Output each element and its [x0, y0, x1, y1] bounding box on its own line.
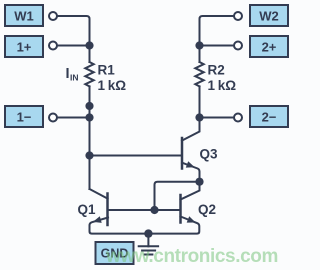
svg-text:IN: IN [70, 73, 79, 83]
ground symbol [147, 234, 149, 247]
Q1 emitter arrow [93, 216, 102, 223]
wire: Q1 collector from left rail [90, 189, 108, 199]
svg-text:Q2: Q2 [198, 202, 216, 217]
node: Q3 base tap junction [85, 151, 93, 159]
Q2 emitter arrow [187, 216, 196, 222]
node: ground junction [144, 229, 152, 237]
transistor Q1 [106, 194, 109, 226]
wire: W1 terminal to left rail [58, 16, 90, 46]
wire: Q2 emitter to bottom rail [148, 217, 199, 234]
svg-text:W1: W1 [14, 9, 34, 24]
pin box 2+ [250, 36, 288, 57]
transistor Q3 [181, 138, 184, 169]
wire: Q3 collector to right rail (2- node) [182, 118, 200, 141]
transistor Q2 [179, 195, 182, 223]
wire: 1+ terminal to left rail [58, 45, 90, 47]
wire: left rail from R1 bottom through 1- node down to Q1 collector [89, 86, 91, 189]
pin box 1- [5, 106, 43, 127]
svg-text:W2: W2 [259, 9, 279, 24]
wire: left rail upper segment (1+ node to R1 top) [89, 46, 91, 63]
wire: Q1-Q2 base rail [108, 209, 181, 211]
svg-text:1+: 1+ [17, 40, 32, 55]
svg-text:1 kΩ: 1 kΩ [98, 78, 127, 93]
resistor R2 [195, 62, 203, 86]
svg-text:2+: 2+ [262, 40, 277, 55]
pin box 2- [250, 106, 288, 127]
svg-text:R2: R2 [208, 63, 225, 78]
terminal W2 [234, 12, 242, 20]
node E3: Q3 emitter / Q2 collector junction [195, 178, 203, 186]
wire: 1- terminal to left rail [58, 117, 90, 119]
svg-text:1 kΩ: 1 kΩ [208, 78, 237, 93]
svg-text:I: I [66, 66, 70, 82]
pin box 1+ [5, 36, 43, 57]
node: 2+ junction [195, 41, 203, 49]
wire: Q3 base rail from left rail [90, 155, 182, 157]
wire: node E3 horizontal to left corner [155, 182, 200, 210]
svg-text:www.cntronics.com: www.cntronics.com [105, 246, 278, 267]
node: base rail junction [150, 206, 158, 214]
terminal 1+ [49, 42, 57, 50]
svg-text:Q1: Q1 [78, 202, 97, 217]
svg-text:2−: 2− [262, 110, 277, 125]
svg-text:Q3: Q3 [200, 147, 219, 162]
pin box W1 [5, 5, 43, 26]
wire: Q1 emitter to bottom rail [90, 218, 149, 234]
wire: right rail upper segment (2+ node to R2 top) [199, 46, 201, 63]
resistor R1 [85, 62, 93, 86]
terminal 2+ [234, 42, 242, 50]
wire: right rail from R2 bottom to 2- node [199, 86, 201, 117]
svg-text:1−: 1− [17, 110, 32, 125]
terminal W1 [49, 12, 57, 20]
node: 2- junction [195, 113, 203, 121]
terminal 2- [234, 114, 242, 122]
wire: Q2 collector to node E3 [181, 182, 200, 200]
terminal 1- [49, 114, 57, 122]
wire: W2 terminal to right rail [200, 16, 234, 46]
Q3 emitter arrow [186, 161, 195, 167]
wire: 2- terminal to right rail [200, 117, 234, 119]
wire: Q3 emitter to node E3 [182, 163, 200, 182]
node: 1- junction [85, 113, 93, 121]
pin box GND [96, 242, 134, 264]
pin box W2 [250, 5, 288, 26]
node: left rail mid junction [85, 102, 93, 110]
svg-text:R1: R1 [98, 63, 116, 78]
wire: 2+ terminal to right rail [200, 45, 234, 47]
node: 1+ junction [85, 41, 93, 49]
